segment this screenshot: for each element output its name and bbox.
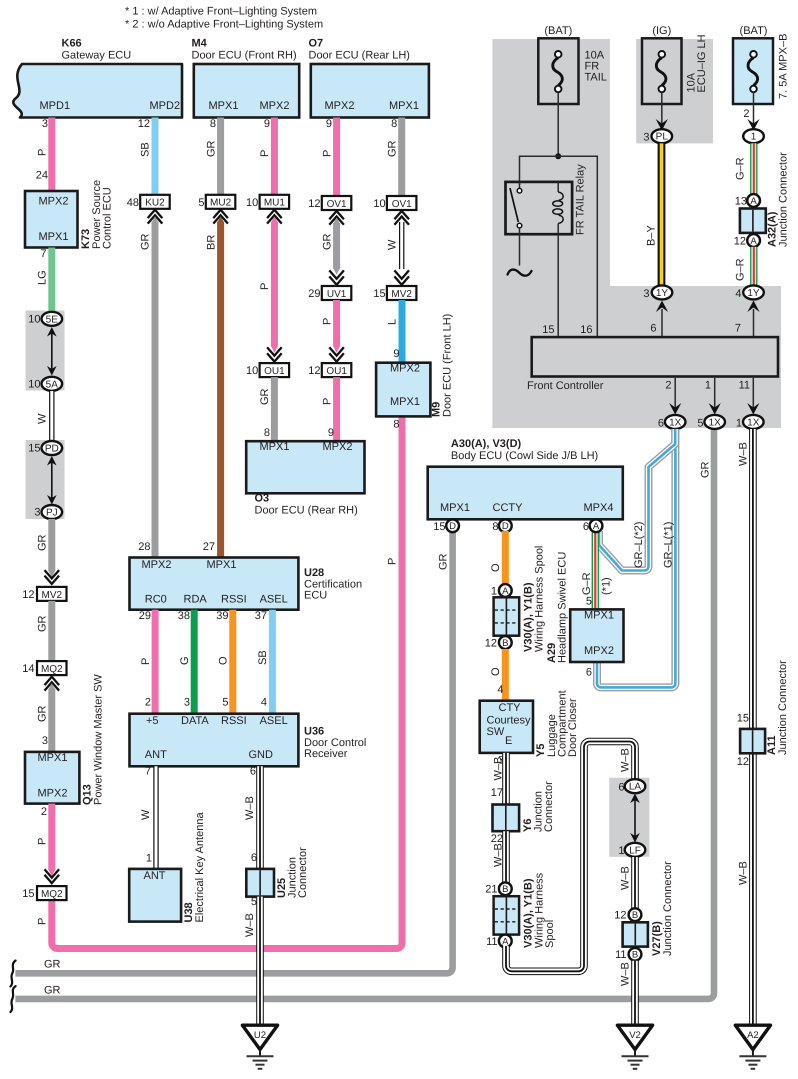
svg-text:GR: GR [437,553,449,570]
svg-text:MPX2: MPX2 [584,645,614,657]
connector OU1 right [322,363,352,377]
connector MQ2 lower [37,886,67,900]
wire GR PJ to MV2 [48,519,55,577]
svg-text:6: 6 [251,852,257,864]
chevron joint down above MV2 [394,270,409,284]
connector LF [625,843,646,857]
wire W-B 1 1X to ground A2 [749,429,757,1024]
svg-text:10: 10 [28,379,40,391]
wiring harness spool V30(A) Y1(B) lower [494,872,556,948]
svg-text:A: A [502,936,509,947]
svg-text:24: 24 [36,170,48,182]
wire P Q13 to MQ2 [48,804,55,877]
svg-text:GR: GR [140,233,152,250]
svg-text:11: 11 [615,949,626,961]
svg-text:15: 15 [542,324,554,336]
svg-text:MQ2: MQ2 [41,664,63,675]
wire relay switch down to squiggle [519,234,521,265]
svg-text:MV2: MV2 [391,289,412,300]
svg-text:6: 6 [658,417,664,429]
svg-text:KU2: KU2 [145,198,165,209]
svg-text:CCTY: CCTY [493,502,524,514]
svg-text:P: P [37,149,49,156]
svg-text:27: 27 [203,541,215,553]
svg-text:8: 8 [492,521,498,533]
wire P M4 MPX2 to MU1 [271,118,278,195]
connector MV2 right [387,286,417,300]
svg-text:+5: +5 [146,715,159,727]
svg-text:8: 8 [391,118,397,130]
svg-text:LA: LA [629,782,642,793]
svg-text:G–R: G–R [735,258,747,281]
svg-text:O: O [490,563,502,572]
svg-text:3: 3 [184,696,190,708]
svg-text:MV2: MV2 [42,590,63,601]
svg-text:5: 5 [198,197,204,209]
svg-text:Junction Connector: Junction Connector [777,660,789,755]
svg-text:6: 6 [586,667,592,679]
chevron joint down above MQ2 [45,869,60,883]
svg-text:A: A [750,236,757,247]
svg-text:P: P [37,918,49,925]
svg-text:B–Y: B–Y [646,225,658,246]
front controller box [527,337,778,392]
svg-text:Power Window Master SW: Power Window Master SW [93,674,105,805]
pin circle A top of A32 [747,194,760,207]
svg-text:(BAT): (BAT) [740,25,768,37]
svg-text:MPX1: MPX1 [207,559,237,571]
chevron joint down above OU1 right [329,347,344,361]
connector MU2 [206,195,236,209]
svg-text:PD: PD [45,444,59,455]
connector OV1 right [387,196,417,210]
wire 1Y to controller pin 6 [661,309,663,337]
svg-text:GR: GR [259,388,271,405]
shaded region 5E-5A connectors [26,311,65,391]
svg-text:3: 3 [643,288,649,300]
svg-text:P: P [321,318,333,325]
svg-text:GR–L(*2): GR–L(*2) [633,522,645,568]
junction node dot [555,153,561,159]
svg-text:W–B: W–B [244,796,256,820]
svg-text:B: B [632,950,638,961]
svg-text:12: 12 [308,365,320,377]
svg-text:9: 9 [264,118,270,130]
svg-text:RSSI: RSSI [221,715,247,727]
svg-text:12: 12 [22,589,34,601]
svg-text:W–B: W–B [620,962,632,986]
switch Y5 Courtesy SW [480,690,579,757]
svg-text:16: 16 [580,324,592,336]
svg-text:FR TAIL Relay: FR TAIL Relay [575,164,587,235]
pin circle D CCTY [499,519,512,532]
svg-text:7. 5A MPX–B: 7. 5A MPX–B [778,34,790,99]
svg-text:W–B: W–B [493,843,505,867]
svg-text:12: 12 [138,118,150,130]
wire GR-L(*2) 6 1X to Body ECU MPX4 [599,429,675,571]
svg-text:Receiver: Receiver [304,748,348,760]
wiring harness spool V30(A) Y1(B) upper [494,546,546,652]
svg-text:W–B: W–B [738,442,750,466]
connector MV2 [37,587,67,601]
svg-text:6: 6 [650,323,656,335]
svg-text:MPX1: MPX1 [390,396,420,408]
pin circle B V27 top [629,908,642,921]
svg-text:U36: U36 [304,726,324,738]
shaded region LA-LF connectors [609,778,649,857]
wire GR KU2 to U28 MPX2 pin 28 [152,216,159,557]
svg-text:6: 6 [618,782,624,794]
svg-text:V2: V2 [629,1030,641,1041]
pin circle A MPX4 [590,519,603,532]
wire G-R A32 to 1Y right [750,247,757,286]
svg-text:* 2 : w/o Adaptive Front–Light: * 2 : w/o Adaptive Front–Lighting System [125,19,323,31]
wire B-Y PL to 1Y [658,143,666,286]
svg-text:3: 3 [42,118,48,130]
svg-text:U28: U28 [304,567,324,579]
svg-text:ANT: ANT [145,749,167,761]
svg-text:Wiring Harness Spool: Wiring Harness Spool [534,546,546,652]
connector 1X c [743,415,764,429]
svg-text:3: 3 [34,507,40,519]
junction connector U25 [246,847,309,898]
wire W-B Y5 E to Y6 [502,753,510,805]
svg-text:W–B: W–B [244,913,256,937]
svg-text:15: 15 [22,888,34,900]
svg-text:A: A [750,196,757,207]
svg-text:OU1: OU1 [264,366,285,377]
svg-text:MU2: MU2 [210,198,232,209]
wire P (pink) Q13/MQ2 down, right, up to M9 MPX1 pin 8 [52,416,402,949]
svg-text:Courtesy: Courtesy [487,715,532,727]
svg-text:W: W [37,413,49,424]
svg-text:A2: A2 [747,1030,759,1041]
svg-text:37: 37 [255,610,267,622]
svg-text:1: 1 [491,586,497,598]
svg-text:MPX2: MPX2 [323,441,353,453]
pin circle D MPX1 [446,519,459,532]
svg-text:Gateway ECU: Gateway ECU [62,50,132,62]
svg-text:2: 2 [665,380,671,392]
svg-text:13: 13 [735,196,747,208]
svg-text:8: 8 [264,427,270,439]
svg-text:1Y: 1Y [747,288,760,299]
chevron joint down above UV1 [329,270,344,284]
wire GR MQ2 to Q13 [48,683,55,752]
wire controller pin 1 to 5 1X [714,377,716,414]
junction connector Y6 [493,781,556,832]
svg-text:P: P [387,558,399,565]
svg-text:O: O [490,667,502,676]
svg-text:W–B: W–B [620,748,632,772]
svg-text:ANT: ANT [144,870,166,882]
wire GR OU1 to O3 MPX1 pin 8 [271,377,278,441]
svg-text:Connector: Connector [543,781,555,832]
ECU K73 Power Source Control ECU [25,180,114,249]
svg-text:RSSI: RSSI [221,594,247,606]
svg-text:39: 39 [216,610,228,622]
chevron joint up below MQ2 [45,677,60,691]
svg-text:(IG): (IG) [652,25,671,37]
svg-text:2: 2 [41,806,47,818]
svg-text:MPX4: MPX4 [584,502,614,514]
wire W-B LF to B 12 [631,857,639,908]
connector 1Y left [652,285,673,299]
svg-text:CTY: CTY [499,702,522,714]
svg-text:5: 5 [222,696,228,708]
connector PJ [42,505,63,519]
svg-text:W: W [386,239,398,250]
arrow up into 1Y left [656,301,668,313]
wire 1Y right to controller pin 7 [753,309,755,337]
svg-text:GR: GR [205,140,217,157]
svg-text:3: 3 [42,735,48,747]
connector PL [652,129,673,143]
svg-text:1X: 1X [747,417,760,428]
svg-text:W–B: W–B [493,757,505,781]
svg-text:9: 9 [326,118,332,130]
svg-text:P: P [321,398,333,405]
svg-text:11: 11 [739,380,750,392]
squiggle other system [508,270,532,276]
wire GR horizontal from Body ECU MPX1 pin 15 [15,531,452,973]
wire controller pin 2 to 6 1X [674,377,676,414]
svg-text:OV1: OV1 [392,199,412,210]
svg-text:GR: GR [386,140,398,157]
svg-text:ASEL: ASEL [260,594,288,606]
svg-text:1: 1 [618,845,624,857]
svg-text:O: O [218,656,230,665]
svg-text:DATA: DATA [181,715,209,727]
svg-text:(*1): (*1) [601,577,613,595]
svg-text:SB: SB [140,142,152,157]
wire P UV1 to OU1 [333,300,340,353]
connector UV1 [322,286,352,300]
svg-text:D: D [449,521,456,532]
svg-text:MPX2: MPX2 [325,100,355,112]
svg-text:GR–L(*1): GR–L(*1) [663,522,675,568]
shaded region front controller band [492,286,781,428]
junction connector V27(B) [623,861,674,956]
shaded region FR TAIL fuse/relay [492,39,610,287]
connector 5A [42,377,63,391]
arrow into connector 1 [747,119,759,131]
svg-text:GR: GR [37,705,49,722]
svg-text:8: 8 [210,118,216,130]
svg-text:MPX1: MPX1 [389,100,419,112]
pin circle A bottom of A32 [747,234,760,247]
svg-text:OV1: OV1 [327,199,347,210]
wire LG K73 to 5E [48,248,55,314]
wire W-B U36 GND to U25 [256,766,264,869]
svg-text:1Y: 1Y [656,288,669,299]
connector MQ2 [37,661,67,675]
svg-text:A: A [502,586,509,597]
svg-text:MPX2: MPX2 [390,362,420,374]
chevron joint up below OV1 right [394,211,409,225]
svg-text:10: 10 [246,197,258,209]
svg-text:12: 12 [614,910,626,922]
svg-text:22: 22 [491,833,503,845]
connector PD [42,441,63,455]
svg-text:15: 15 [373,288,385,300]
wire GR O7 MPX1 to OV1 right [398,118,405,197]
svg-text:MPD1: MPD1 [40,100,71,112]
svg-text:PL: PL [656,132,669,143]
svg-text:G: G [179,656,191,665]
svg-text:Spool: Spool [544,920,556,948]
svg-text:RC0: RC0 [145,594,167,606]
wire W-B U25 to ground U2 [256,897,264,1024]
ground V2 [617,1025,652,1069]
svg-text:MPX1: MPX1 [39,231,69,243]
ECU K66 Gateway ECU [13,38,182,118]
wire GR OV1 to UV1 [333,218,340,275]
svg-text:15: 15 [28,443,40,455]
svg-text:Connector: Connector [297,847,309,898]
svg-text:10: 10 [373,198,385,210]
svg-text:Junction Connector: Junction Connector [778,152,790,247]
double arrow PD to PJ [47,456,57,505]
svg-text:MU1: MU1 [264,198,286,209]
shaded region ECU-IG fuse [636,39,713,143]
ground U2 [242,1025,277,1069]
svg-text:B: B [502,884,508,895]
wire controller pin 11 to 1 1X [752,377,754,414]
wire P K66 MPD1 to K73 [48,118,55,192]
svg-text:15: 15 [433,521,445,533]
connector LA [625,779,646,793]
svg-text:MPX1: MPX1 [260,441,290,453]
svg-text:48: 48 [127,197,139,209]
wire GR-L(*1) 6 1X to A29 MPX2 [597,429,675,687]
svg-text:Front Controller: Front Controller [527,380,604,392]
svg-text:12: 12 [485,638,497,650]
svg-text:12: 12 [734,236,746,248]
ECU A30(A) V3(D) Body ECU (Cowl Side J/B LH) [428,438,623,519]
svg-text:U2: U2 [254,1030,266,1041]
svg-text:1: 1 [146,852,152,864]
svg-text:4: 4 [735,288,741,300]
svg-text:29: 29 [139,610,151,622]
svg-text:A30(A), V3(D): A30(A), V3(D) [451,438,522,450]
wire relay coil down to controller pin 15 [557,234,559,337]
wire O Body ECU CCTY to spool A [502,531,509,590]
arrow into 1 1X [747,403,759,415]
svg-text:ECU–IG LH: ECU–IG LH [696,34,708,92]
svg-text:GR: GR [37,534,49,551]
arrow up into 1Y right [747,301,759,313]
connector MU1 [260,195,290,209]
wire P O7 MPX2 to OV1 [333,118,340,197]
break squiggle GR wire 2 [10,986,15,1012]
junction connector A32(A) [740,152,790,247]
wire W-B Y6 to spool B [502,831,510,882]
switch Q13 Power Window Master SW [25,674,105,805]
svg-text:21: 21 [485,884,497,896]
svg-text:M4: M4 [192,38,208,50]
wire GR M4 MPX1 to MU2 [217,118,224,195]
svg-text:5A: 5A [46,379,59,390]
svg-text:12: 12 [737,756,749,768]
svg-text:5: 5 [586,596,592,608]
svg-text:G–R: G–R [581,572,593,595]
svg-text:K66: K66 [62,38,82,50]
svg-text:2: 2 [743,108,749,120]
connector 1X a [665,415,686,429]
svg-text:GR: GR [37,615,49,632]
svg-text:5: 5 [251,896,257,908]
wire W-B V27 to ground V2 [631,961,639,1024]
svg-text:Door ECU (Rear LH): Door ECU (Rear LH) [309,50,410,62]
svg-text:1: 1 [705,380,711,392]
connector 1 [743,129,764,143]
wire SB U28 ASEL to U36 ASEL [269,610,276,714]
svg-text:10: 10 [28,314,40,326]
svg-text:Electrical Key Antenna: Electrical Key Antenna [194,812,206,923]
svg-text:MPX1: MPX1 [38,752,68,764]
svg-text:B: B [632,910,638,921]
antenna U38 Electrical Key Antenna [129,812,206,923]
relay FR TAIL Relay [506,164,587,235]
svg-text:6: 6 [250,765,256,777]
wire P MU1 down to OU1 [271,216,278,352]
ECU M4 Door ECU (Front RH) [192,38,300,118]
connector OU1 left [260,363,290,377]
svg-text:1X: 1X [669,417,682,428]
svg-text:3: 3 [643,132,649,144]
svg-text:O7: O7 [309,38,324,50]
arrow into PL [656,119,668,131]
svg-text:MQ2: MQ2 [41,889,63,900]
svg-text:2: 2 [145,696,151,708]
svg-text:9: 9 [393,348,399,360]
connector 1Y right [743,285,764,299]
svg-text:GND: GND [249,749,274,761]
pin circle A spool lower bottom [499,935,512,948]
svg-text:SB: SB [257,650,269,665]
connector OV1 left [322,196,352,210]
fuse 10A ECU-IG LH [642,34,708,104]
pin circle B V27 bottom [629,948,642,961]
svg-text:GR: GR [321,233,333,250]
svg-text:GR: GR [44,985,61,997]
arrow into 5 1X [709,403,721,415]
wire P U28 RC0 to U36 +5 [152,610,159,714]
svg-text:UV1: UV1 [327,289,347,300]
svg-text:ECU: ECU [304,590,327,602]
ECU O7 Door ECU (Rear LH) [309,38,429,118]
svg-text:ASEL: ASEL [260,715,288,727]
svg-text:G–R: G–R [735,157,747,180]
wire W U36 ANT to U38 [153,766,158,869]
ECU U28 Certification ECU [130,558,363,610]
svg-text:14: 14 [22,663,34,675]
svg-text:1: 1 [736,417,742,429]
svg-text:15: 15 [737,713,749,725]
wire SB K66 MPD2 to KU2 [152,118,159,195]
svg-text:OU1: OU1 [326,366,347,377]
chevron joint down above MV2 [45,570,60,584]
wire junction branches [520,156,598,337]
wire G-R connector 1 to A 13 [750,143,757,195]
svg-text:29: 29 [308,288,320,300]
svg-text:P: P [259,150,271,157]
svg-text:7: 7 [145,765,151,777]
svg-text:Door Closer: Door Closer [567,698,579,757]
ground A2 [735,1025,770,1069]
svg-text:D: D [502,521,509,532]
